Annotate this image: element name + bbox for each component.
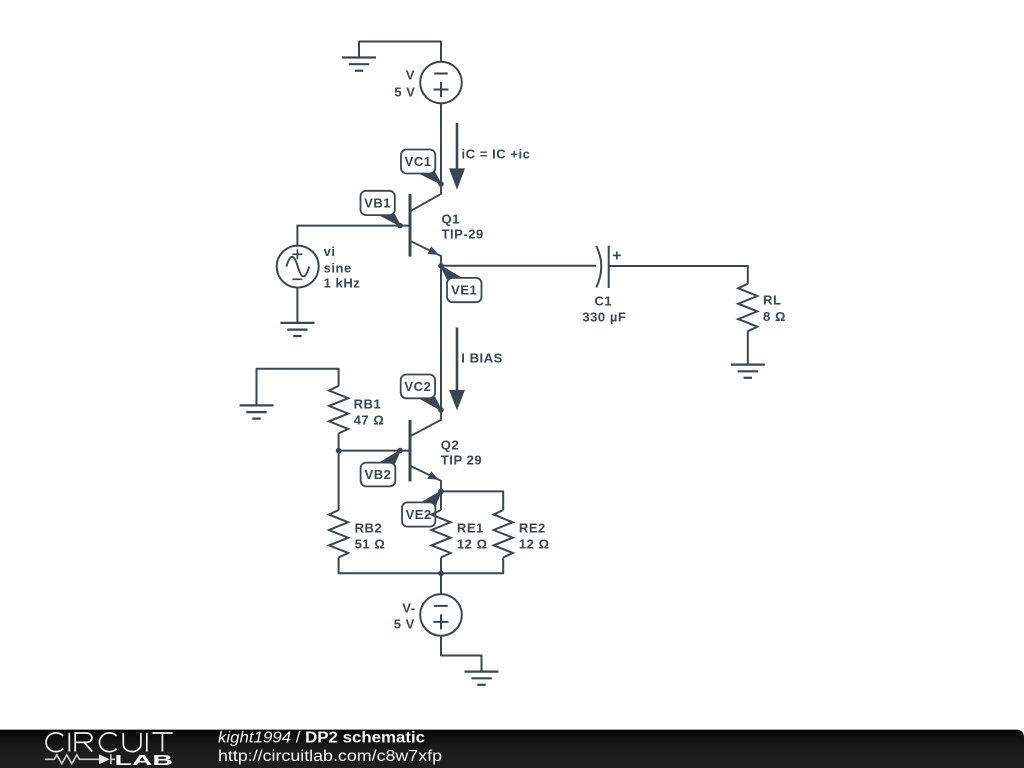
svg-text:51 Ω: 51 Ω [355, 537, 386, 552]
ground (V-) [465, 672, 499, 685]
current arrow iC [449, 123, 465, 190]
current arrow I BIAS [449, 328, 465, 411]
voltage source vi (sine 1kHz) [277, 246, 319, 288]
svg-text:8 Ω: 8 Ω [763, 309, 786, 324]
svg-text:TIP 29: TIP 29 [441, 452, 482, 467]
svg-text:Q2: Q2 [441, 437, 459, 452]
node bottom junction [438, 571, 444, 577]
wire V+ to Q1 collector [440, 103, 442, 184]
svg-text:330 µF: 330 µF [582, 309, 626, 324]
wire V+ top [359, 42, 441, 63]
svg-text:Q1: Q1 [442, 212, 460, 227]
capacitor C1 [596, 246, 621, 288]
resistor RL [738, 284, 757, 332]
svg-text:RB2: RB2 [355, 521, 383, 536]
svg-text:12 Ω: 12 Ω [519, 537, 550, 552]
net label VB1 [361, 191, 401, 226]
svg-text:V-: V- [402, 600, 415, 615]
voltage source V2 (V- 5V) [420, 594, 462, 636]
ground (left) [240, 405, 274, 418]
svg-text:RL: RL [763, 293, 781, 308]
ground (RL) [731, 365, 765, 378]
node VB2 [397, 448, 403, 454]
svg-text:LAB: LAB [115, 753, 174, 768]
svg-text:VB1: VB1 [364, 196, 391, 211]
wire VE1 to C1 [441, 265, 596, 267]
wire vi to Q1 base [297, 226, 410, 246]
wire gnd to RB1 [257, 369, 339, 406]
node VE1 [438, 263, 444, 269]
svg-text:1 kHz: 1 kHz [324, 276, 361, 291]
wire bottom rail [339, 558, 504, 574]
resistor RB2 [329, 510, 348, 558]
svg-text:VC2: VC2 [404, 379, 431, 394]
svg-text:VB2: VB2 [365, 467, 392, 482]
net label VC1 [401, 150, 441, 185]
svg-text:TIP-29: TIP-29 [442, 227, 484, 242]
transistor Q2 [410, 410, 441, 491]
CircuitLab logo: resistor-diode line [45, 754, 115, 764]
node VE2 [438, 489, 444, 495]
resistor RB1 [329, 386, 348, 434]
node VC2 [438, 407, 444, 413]
CircuitLab logo: CIRCUIT wordmark [46, 733, 173, 752]
wire junction to Q2 base [339, 450, 410, 452]
svg-text:sine: sine [324, 260, 352, 275]
wire VE1 to VC2 [440, 266, 442, 410]
resistor RE1 [431, 510, 450, 558]
wire VE2 to RE1 [440, 491, 442, 510]
svg-text:RE1: RE1 [457, 521, 484, 536]
svg-text:http://circuitlab.com/c8w7xfp: http://circuitlab.com/c8w7xfp [218, 748, 442, 765]
svg-text:iC = IC +ic: iC = IC +ic [462, 147, 531, 162]
net label VE1 [441, 266, 482, 302]
node VB1 [397, 223, 403, 229]
wire VE2 to RE2 [441, 491, 503, 510]
resistor RE2 [494, 510, 513, 558]
wire C1 to RL [609, 266, 748, 284]
svg-text:RB1: RB1 [354, 397, 382, 412]
voltage source V1 (V 5V) [420, 62, 462, 104]
svg-text:vi: vi [324, 244, 336, 259]
wire vi to ground [296, 288, 298, 323]
svg-text:RE2: RE2 [519, 521, 546, 536]
svg-text:I BIAS: I BIAS [461, 351, 503, 366]
svg-text:VE2: VE2 [406, 507, 432, 522]
net label VB2 [361, 451, 400, 487]
svg-text:5 V: 5 V [394, 617, 415, 632]
net label VC2 [401, 375, 441, 411]
node RB junction [336, 448, 342, 454]
wire V- to ground [441, 636, 482, 672]
svg-text:VE1: VE1 [451, 283, 477, 298]
svg-text:12 Ω: 12 Ω [457, 537, 488, 552]
svg-text:VC1: VC1 [405, 154, 432, 169]
transistor Q1 [410, 184, 441, 266]
ground (vi) [280, 323, 314, 336]
wire RE1 to V- [440, 558, 442, 595]
node VC1 [438, 181, 444, 187]
svg-text:C1: C1 [594, 293, 612, 308]
svg-text:5 V: 5 V [394, 85, 415, 100]
wire RL to ground [747, 331, 749, 364]
CircuitLab logo: diode triangle [99, 754, 110, 764]
wire RB1 to RB2 [338, 433, 340, 510]
svg-text:47 Ω: 47 Ω [354, 412, 385, 427]
ground (top left) [342, 58, 376, 71]
svg-text:V: V [406, 68, 415, 83]
net label VE2 [402, 491, 441, 526]
svg-text:kight1994 / DP2 schematic: kight1994 / DP2 schematic [218, 730, 425, 747]
